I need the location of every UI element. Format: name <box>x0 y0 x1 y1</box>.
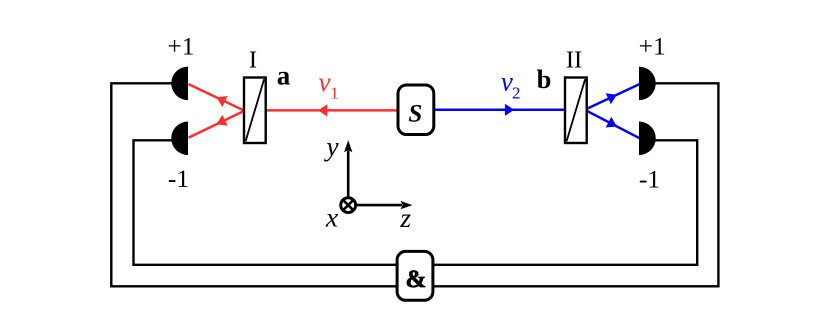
svg-text:a: a <box>277 61 291 91</box>
svg-text:x: x <box>325 202 338 233</box>
svg-text:2: 2 <box>512 83 521 102</box>
svg-text:1: 1 <box>330 84 339 103</box>
svg-text:-1: -1 <box>168 164 189 193</box>
svg-text:y: y <box>323 130 339 161</box>
svg-text:z: z <box>399 202 411 233</box>
svg-text:b: b <box>537 64 552 94</box>
svg-text:II: II <box>566 46 582 73</box>
svg-text:&: & <box>405 266 426 293</box>
svg-text:+1: +1 <box>639 32 666 61</box>
svg-text:ν: ν <box>319 67 331 97</box>
svg-text:-1: -1 <box>639 164 660 193</box>
svg-text:+1: +1 <box>167 32 194 61</box>
svg-text:I: I <box>249 47 257 74</box>
svg-text:S: S <box>408 100 422 127</box>
